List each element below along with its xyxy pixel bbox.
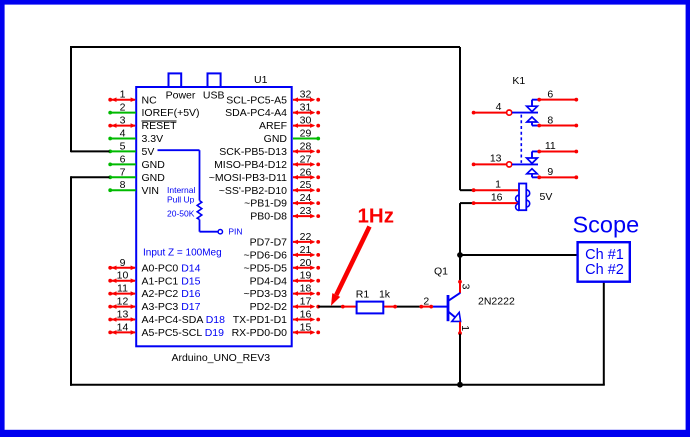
svg-text:Arduino_UNO_REV3: Arduino_UNO_REV3 (171, 352, 270, 364)
svg-text:A0-PC0 D14: A0-PC0 D14 (142, 262, 201, 274)
svg-text:Scope: Scope (573, 212, 640, 238)
svg-text:USB: USB (203, 89, 225, 101)
svg-text:6: 6 (120, 153, 126, 165)
svg-text:A4-PC4-SDA D18: A4-PC4-SDA D18 (142, 314, 226, 326)
svg-text:21: 21 (300, 244, 312, 256)
svg-text:~MOSI-PB3-D11: ~MOSI-PB3-D11 (209, 172, 287, 184)
svg-text:RESET: RESET (142, 120, 178, 132)
svg-text:A2-PC2 D16: A2-PC2 D16 (142, 288, 201, 300)
svg-text:2N2222: 2N2222 (478, 296, 515, 308)
svg-text:7: 7 (120, 166, 126, 178)
svg-text:15: 15 (300, 321, 312, 333)
svg-text:8: 8 (120, 179, 126, 191)
svg-text:RX-PD0-D0: RX-PD0-D0 (232, 327, 288, 339)
svg-text:A5-PC5-SCL D19: A5-PC5-SCL D19 (142, 327, 225, 339)
svg-text:~PD6-D6: ~PD6-D6 (244, 250, 288, 262)
svg-text:8: 8 (547, 114, 553, 126)
svg-text:11: 11 (545, 140, 556, 152)
svg-text:3.3V: 3.3V (142, 133, 164, 145)
svg-text:14: 14 (117, 321, 129, 333)
svg-text:~SS'-PB2-D10: ~SS'-PB2-D10 (219, 185, 287, 197)
svg-text:~PD5-D5: ~PD5-D5 (244, 262, 288, 274)
svg-text:1: 1 (495, 178, 501, 190)
svg-text:A3-PC3 D17: A3-PC3 D17 (142, 301, 201, 313)
svg-text:Q1: Q1 (434, 266, 448, 278)
svg-text:18: 18 (300, 283, 312, 295)
svg-text:1: 1 (120, 89, 126, 101)
svg-text:2: 2 (423, 296, 429, 308)
svg-text:Ch #1: Ch #1 (585, 247, 624, 263)
svg-text:Ch #2: Ch #2 (585, 262, 624, 278)
svg-text:PB0-D8: PB0-D8 (250, 211, 287, 223)
svg-text:5: 5 (120, 140, 126, 152)
svg-text:20: 20 (300, 257, 312, 269)
svg-text:9: 9 (120, 257, 126, 269)
svg-text:9: 9 (547, 166, 553, 178)
svg-text:26: 26 (300, 166, 312, 178)
svg-text:SDA-PC4-A4: SDA-PC4-A4 (225, 107, 287, 119)
svg-text:~PB1-D9: ~PB1-D9 (244, 198, 287, 210)
svg-text:22: 22 (300, 231, 312, 243)
svg-text:13: 13 (490, 153, 502, 165)
svg-text:3: 3 (459, 284, 471, 290)
svg-text:R1: R1 (356, 289, 370, 301)
svg-text:GND: GND (264, 133, 288, 145)
svg-text:Pull Up: Pull Up (167, 195, 195, 205)
svg-text:1Hz: 1Hz (358, 205, 394, 228)
svg-text:32: 32 (300, 89, 312, 101)
svg-text:12: 12 (117, 296, 129, 308)
svg-text:27: 27 (300, 153, 312, 165)
svg-text:PD4-D4: PD4-D4 (250, 275, 288, 287)
svg-text:5V: 5V (142, 146, 155, 158)
svg-text:16: 16 (491, 191, 503, 203)
svg-text:30: 30 (300, 115, 312, 127)
svg-text:Input Z = 100Meg: Input Z = 100Meg (143, 248, 222, 259)
svg-text:U1: U1 (254, 74, 268, 86)
svg-text:24: 24 (300, 192, 312, 204)
svg-text:20-50K: 20-50K (167, 208, 195, 218)
svg-text:6: 6 (547, 89, 553, 101)
svg-text:SCK-PB5-D13: SCK-PB5-D13 (219, 146, 287, 158)
svg-text:10: 10 (117, 270, 129, 282)
svg-text:19: 19 (300, 270, 312, 282)
svg-text:MISO-PB4-D12: MISO-PB4-D12 (214, 159, 287, 171)
svg-text:PD7-D7: PD7-D7 (250, 237, 288, 249)
svg-text:31: 31 (300, 102, 312, 114)
svg-text:11: 11 (117, 283, 128, 295)
svg-text:29: 29 (300, 128, 312, 140)
svg-text:IOREF(+5V): IOREF(+5V) (142, 107, 200, 119)
svg-text:1: 1 (459, 325, 471, 331)
svg-text:K1: K1 (512, 75, 525, 87)
svg-text:5V: 5V (540, 191, 553, 203)
svg-text:Power: Power (166, 89, 196, 101)
svg-text:NC: NC (142, 94, 158, 106)
svg-text:1k: 1k (379, 289, 391, 301)
svg-text:SCL-PC5-A5: SCL-PC5-A5 (226, 94, 287, 106)
svg-text:PD2-D2: PD2-D2 (250, 301, 288, 313)
svg-text:A1-PC1 D15: A1-PC1 D15 (142, 275, 201, 287)
svg-text:GND: GND (142, 159, 166, 171)
svg-text:3: 3 (120, 115, 126, 127)
svg-text:PIN: PIN (228, 226, 242, 236)
svg-text:13: 13 (117, 309, 129, 321)
svg-text:28: 28 (300, 140, 312, 152)
svg-text:4: 4 (120, 128, 126, 140)
svg-text:2: 2 (120, 102, 126, 114)
svg-text:VIN: VIN (142, 185, 160, 197)
svg-text:TX-PD1-D1: TX-PD1-D1 (233, 314, 287, 326)
svg-text:17: 17 (300, 296, 312, 308)
svg-text:AREF: AREF (259, 120, 287, 132)
svg-text:16: 16 (300, 309, 312, 321)
svg-text:GND: GND (142, 172, 166, 184)
svg-text:~PD3-D3: ~PD3-D3 (244, 288, 288, 300)
svg-text:23: 23 (300, 205, 312, 217)
svg-text:25: 25 (300, 179, 312, 191)
svg-text:4: 4 (496, 101, 502, 113)
